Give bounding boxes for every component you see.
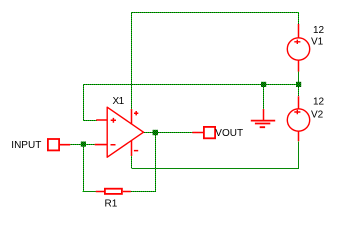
svg-text:INPUT: INPUT [11, 140, 41, 151]
svg-text:X1: X1 [113, 96, 125, 107]
svg-text:R1: R1 [105, 199, 118, 210]
svg-text:VOUT: VOUT [215, 128, 243, 139]
svg-text:V2: V2 [311, 110, 324, 121]
svg-text:V1: V1 [311, 37, 324, 48]
svg-text:12: 12 [313, 97, 325, 108]
svg-text:12: 12 [313, 25, 325, 36]
